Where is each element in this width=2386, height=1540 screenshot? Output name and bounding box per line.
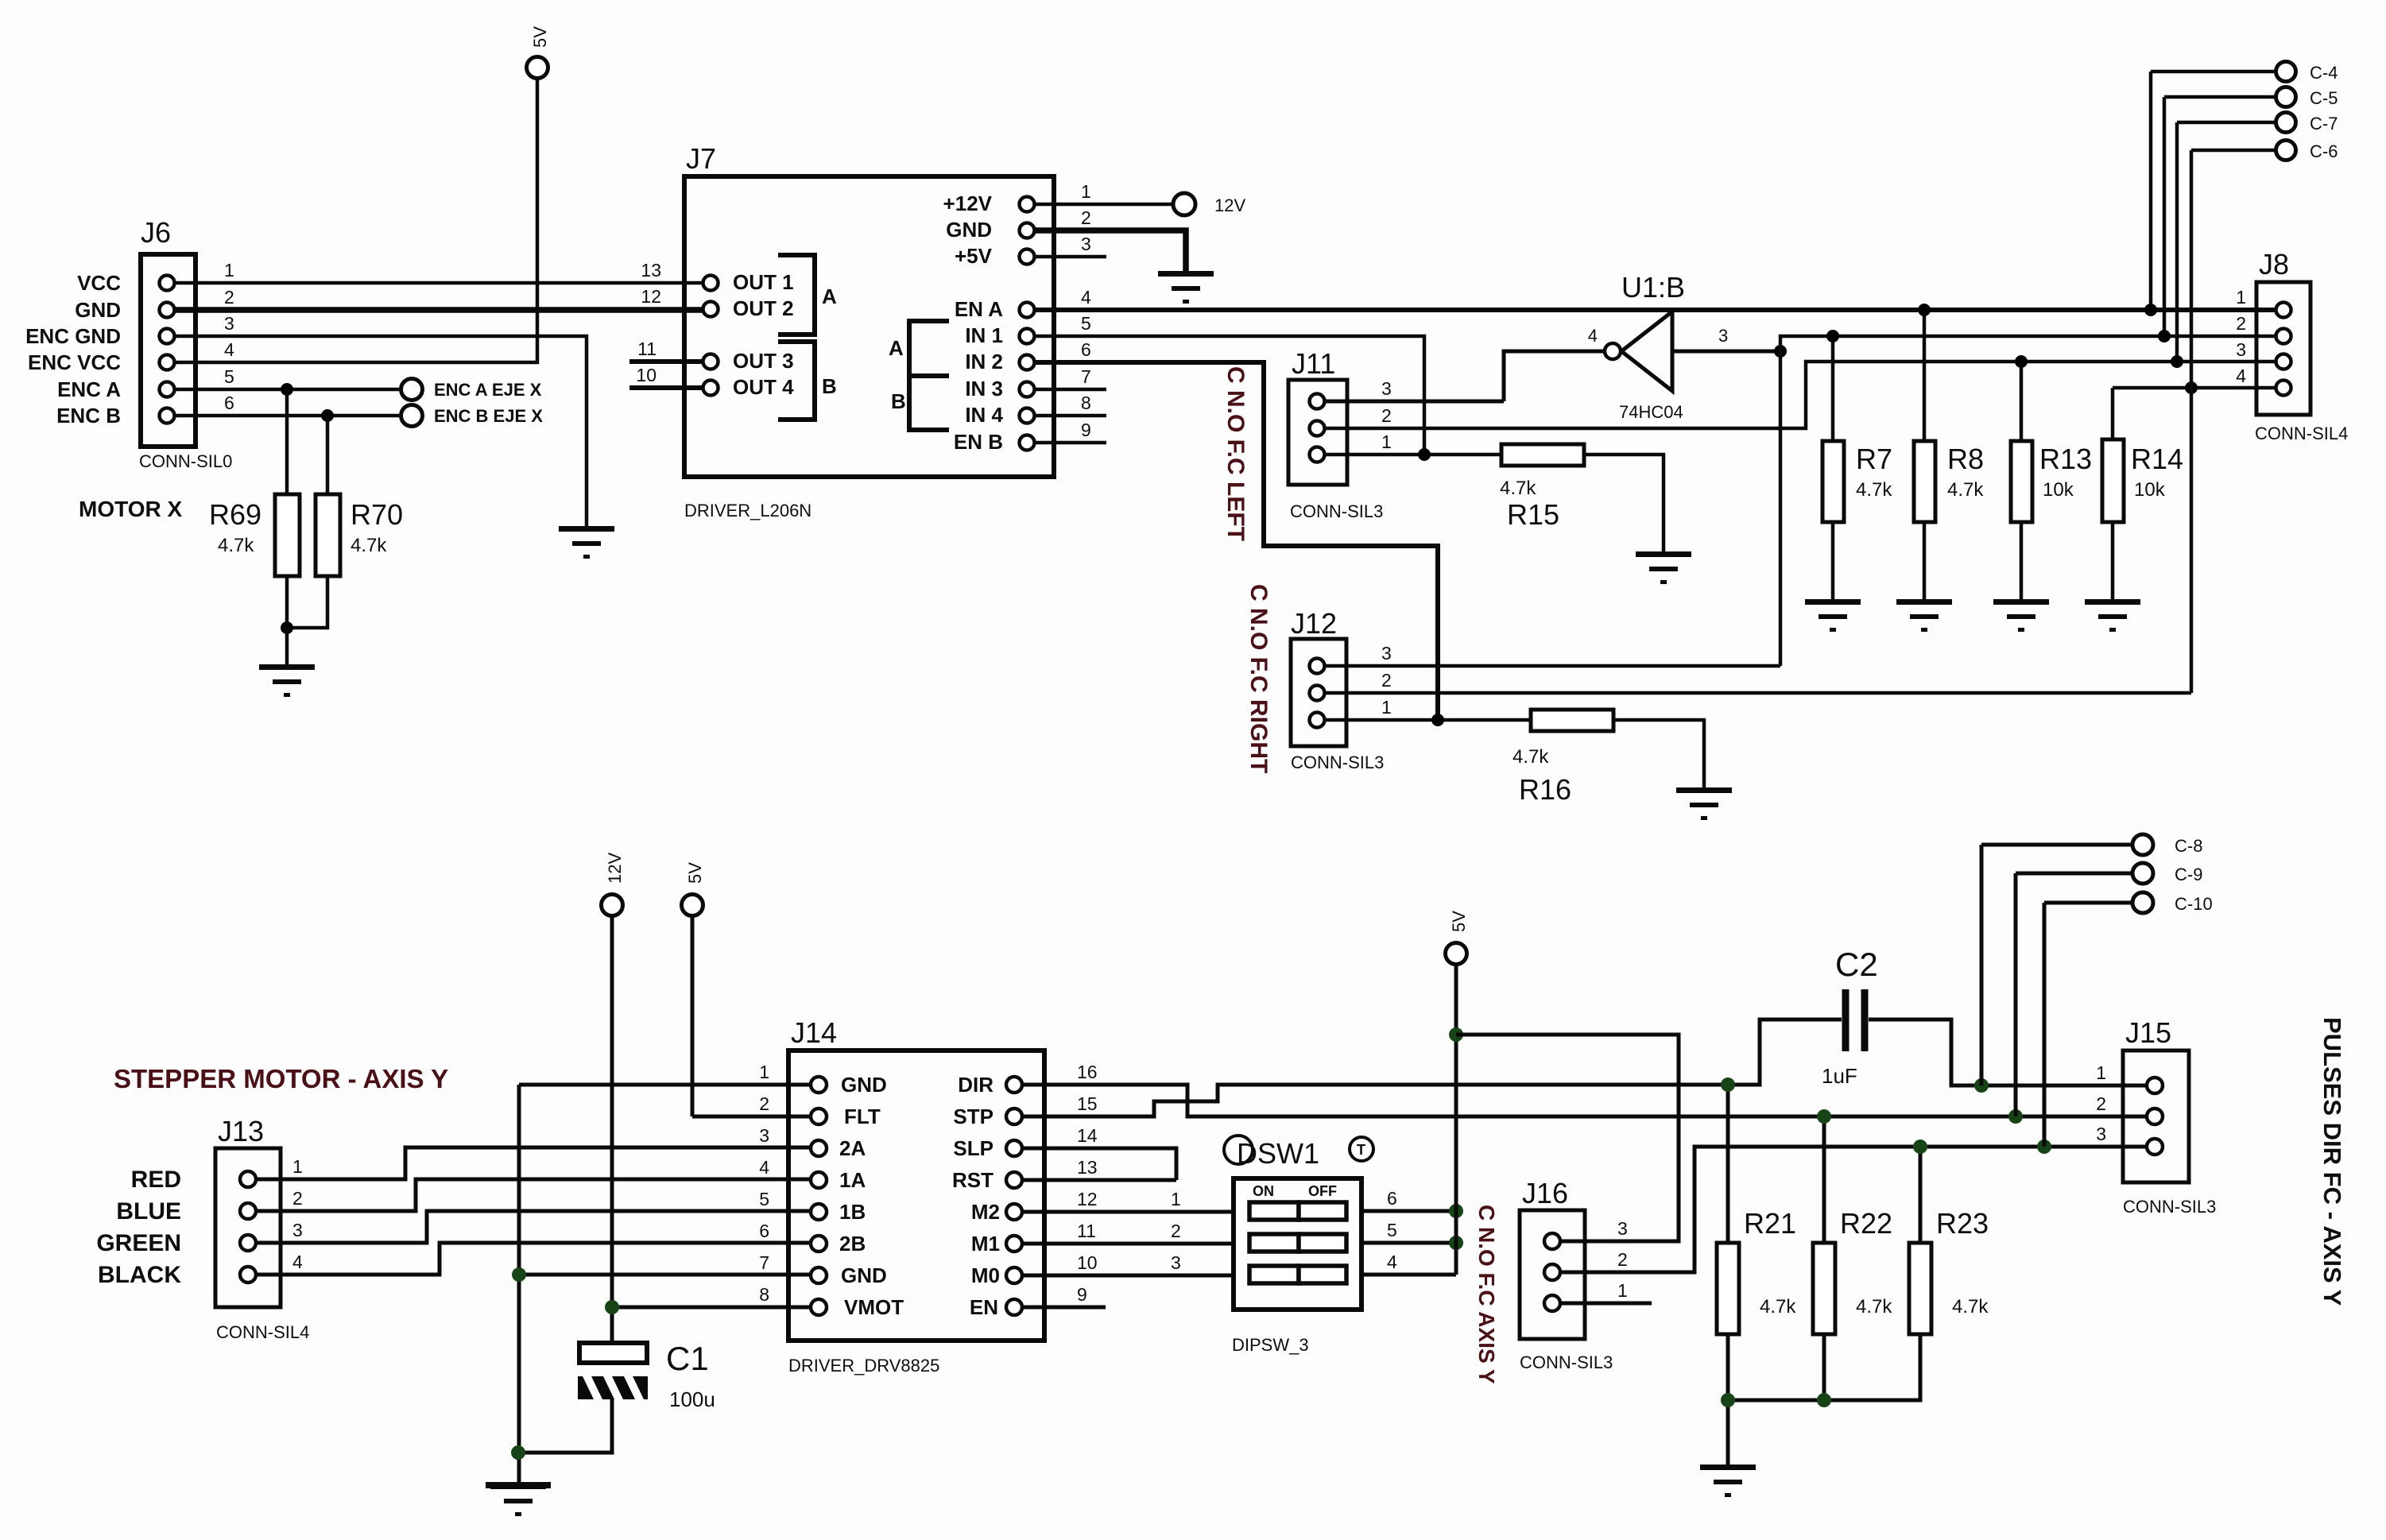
- svg-text:J6: J6: [141, 216, 171, 249]
- svg-text:C-7: C-7: [2310, 114, 2338, 133]
- svg-text:U1:B: U1:B: [1621, 271, 1685, 304]
- svg-text:T: T: [1357, 1142, 1365, 1158]
- svg-text:ENC GND: ENC GND: [25, 324, 121, 348]
- svg-text:8: 8: [759, 1284, 769, 1305]
- svg-text:R7: R7: [1856, 443, 1892, 475]
- svg-text:11: 11: [1077, 1221, 1096, 1241]
- svg-text:J14: J14: [791, 1016, 837, 1049]
- svg-text:9: 9: [1081, 420, 1091, 440]
- svg-text:C N.O F.C LEFT: C N.O F.C LEFT: [1222, 366, 1249, 541]
- svg-text:2: 2: [759, 1093, 769, 1114]
- svg-text:1: 1: [1617, 1280, 1628, 1301]
- svg-text:4: 4: [1588, 326, 1598, 346]
- svg-text:15: 15: [1077, 1093, 1098, 1114]
- svg-text:EN: EN: [970, 1295, 998, 1319]
- svg-text:1: 1: [1171, 1189, 1181, 1209]
- svg-text:R23: R23: [1936, 1207, 1989, 1240]
- svg-text:1: 1: [224, 260, 234, 281]
- svg-text:4: 4: [2236, 366, 2246, 386]
- svg-text:J15: J15: [2125, 1016, 2171, 1049]
- svg-text:GND: GND: [75, 298, 121, 322]
- svg-text:9: 9: [1077, 1284, 1087, 1305]
- svg-text:MOTOR X: MOTOR X: [79, 497, 182, 521]
- svg-text:C N.O F.C RIGHT: C N.O F.C RIGHT: [1245, 584, 1272, 773]
- svg-text:10k: 10k: [2134, 479, 2166, 501]
- svg-text:STP: STP: [953, 1105, 994, 1128]
- svg-text:1A: 1A: [839, 1168, 866, 1192]
- svg-text:IN 1: IN 1: [965, 323, 1003, 347]
- svg-text:R70: R70: [351, 498, 403, 531]
- svg-text:1: 1: [292, 1156, 303, 1177]
- svg-text:1uF: 1uF: [1822, 1064, 1857, 1088]
- svg-text:M2: M2: [971, 1200, 1000, 1224]
- svg-text:3: 3: [1171, 1252, 1181, 1273]
- svg-text:12: 12: [1077, 1189, 1098, 1209]
- svg-text:STEPPER MOTOR - AXIS Y: STEPPER MOTOR - AXIS Y: [114, 1064, 448, 1093]
- svg-text:GREEN: GREEN: [96, 1230, 181, 1256]
- svg-text:PULSES DIR FC - AXIS Y: PULSES DIR FC - AXIS Y: [2318, 1017, 2346, 1306]
- svg-text:4: 4: [224, 339, 234, 360]
- svg-text:R8: R8: [1947, 443, 1984, 475]
- svg-text:2: 2: [1381, 405, 1392, 426]
- svg-text:7: 7: [1081, 366, 1091, 387]
- svg-text:3: 3: [292, 1220, 303, 1240]
- svg-text:R16: R16: [1519, 773, 1571, 806]
- svg-text:R14: R14: [2131, 443, 2183, 475]
- svg-text:J7: J7: [686, 142, 716, 175]
- svg-text:BLUE: BLUE: [116, 1198, 181, 1225]
- svg-text:M1: M1: [971, 1232, 1000, 1256]
- svg-text:5: 5: [1081, 313, 1091, 334]
- svg-text:EN B: EN B: [954, 430, 1003, 454]
- svg-text:5V: 5V: [1449, 911, 1469, 932]
- svg-text:C2: C2: [1835, 946, 1878, 983]
- svg-text:R21: R21: [1744, 1207, 1796, 1240]
- svg-text:C-9: C-9: [2175, 865, 2202, 884]
- svg-text:GND: GND: [946, 218, 992, 242]
- svg-text:R69: R69: [209, 498, 261, 531]
- svg-text:GND: GND: [841, 1073, 887, 1097]
- svg-text:74HC04: 74HC04: [1619, 402, 1683, 422]
- svg-text:1: 1: [2236, 287, 2246, 308]
- svg-text:3: 3: [1381, 378, 1392, 399]
- svg-text:10: 10: [1077, 1252, 1098, 1273]
- svg-text:C-8: C-8: [2175, 836, 2202, 856]
- svg-text:RST: RST: [952, 1168, 994, 1192]
- svg-text:IN 3: IN 3: [965, 377, 1003, 400]
- svg-text:C1: C1: [666, 1340, 709, 1377]
- svg-text:+12V: +12V: [943, 192, 993, 215]
- svg-text:5: 5: [224, 366, 234, 387]
- svg-text:VCC: VCC: [77, 271, 121, 295]
- svg-text:5: 5: [1387, 1220, 1397, 1240]
- svg-text:OFF: OFF: [1308, 1183, 1337, 1199]
- svg-text:OUT 4: OUT 4: [733, 375, 794, 399]
- svg-text:ENC VCC: ENC VCC: [28, 350, 121, 374]
- svg-text:10: 10: [636, 365, 657, 385]
- svg-text:4.7k: 4.7k: [1947, 479, 1984, 501]
- svg-text:2: 2: [224, 287, 234, 308]
- svg-text:ENC A EJE X: ENC A EJE X: [434, 380, 542, 400]
- svg-text:2: 2: [1617, 1249, 1628, 1270]
- svg-text:1: 1: [2096, 1062, 2106, 1083]
- svg-text:DRIVER_L206N: DRIVER_L206N: [684, 501, 811, 520]
- svg-text:1B: 1B: [839, 1200, 866, 1224]
- svg-text:4.7k: 4.7k: [1500, 478, 1536, 499]
- svg-text:3: 3: [1381, 643, 1392, 664]
- svg-text:IN 2: IN 2: [965, 350, 1003, 373]
- svg-text:CONN-SIL4: CONN-SIL4: [2255, 424, 2348, 443]
- svg-text:CONN-SIL3: CONN-SIL3: [1291, 753, 1384, 772]
- svg-text:12V: 12V: [1214, 195, 1245, 215]
- svg-text:6: 6: [1081, 339, 1091, 360]
- svg-text:2: 2: [1381, 670, 1392, 691]
- svg-text:2: 2: [1081, 207, 1091, 228]
- svg-text:14: 14: [1077, 1125, 1098, 1146]
- svg-text:100u: 100u: [669, 1387, 715, 1411]
- svg-text:C-10: C-10: [2175, 894, 2213, 914]
- svg-text:R22: R22: [1840, 1207, 1892, 1240]
- svg-text:VMOT: VMOT: [844, 1295, 904, 1319]
- svg-text:3: 3: [224, 313, 234, 334]
- svg-text:4.7k: 4.7k: [1760, 1296, 1796, 1318]
- svg-text:J16: J16: [1522, 1177, 1568, 1209]
- svg-text:CONN-SIL3: CONN-SIL3: [1520, 1352, 1613, 1372]
- svg-text:4: 4: [1387, 1252, 1397, 1272]
- svg-text:4.7k: 4.7k: [218, 535, 254, 556]
- svg-text:BLACK: BLACK: [98, 1262, 181, 1288]
- svg-text:ENC A: ENC A: [57, 377, 121, 401]
- svg-text:2: 2: [292, 1188, 303, 1209]
- svg-text:C-6: C-6: [2310, 141, 2338, 161]
- svg-text:C-5: C-5: [2310, 88, 2338, 108]
- svg-text:10k: 10k: [2043, 479, 2074, 501]
- svg-text:DIPSW_3: DIPSW_3: [1232, 1335, 1309, 1355]
- svg-text:4.7k: 4.7k: [1513, 746, 1549, 768]
- svg-text:C N.O F.C AXIS Y: C N.O F.C AXIS Y: [1474, 1205, 1499, 1384]
- svg-text:12V: 12V: [605, 853, 625, 884]
- svg-text:J8: J8: [2259, 248, 2289, 281]
- svg-text:2: 2: [2096, 1093, 2106, 1114]
- svg-text:5V: 5V: [685, 862, 705, 884]
- svg-text:4: 4: [292, 1252, 303, 1272]
- svg-text:2: 2: [2236, 313, 2246, 334]
- svg-text:M0: M0: [971, 1263, 1000, 1287]
- svg-text:4.7k: 4.7k: [1952, 1296, 1989, 1318]
- svg-text:1: 1: [1381, 697, 1392, 718]
- svg-text:J12: J12: [1291, 607, 1337, 640]
- svg-text:1: 1: [759, 1062, 769, 1082]
- svg-text:13: 13: [1077, 1157, 1098, 1178]
- svg-text:FLT: FLT: [844, 1105, 881, 1128]
- svg-text:4: 4: [1081, 287, 1091, 308]
- svg-text:2: 2: [1171, 1221, 1181, 1241]
- svg-text:CONN-SIL3: CONN-SIL3: [2123, 1197, 2216, 1217]
- svg-text:R13: R13: [2039, 443, 2092, 475]
- svg-text:16: 16: [1077, 1062, 1098, 1082]
- svg-text:6: 6: [759, 1221, 769, 1241]
- svg-text:CONN-SIL3: CONN-SIL3: [1290, 501, 1383, 521]
- svg-text:SLP: SLP: [953, 1136, 994, 1160]
- svg-text:3: 3: [759, 1125, 769, 1146]
- svg-text:C-4: C-4: [2310, 63, 2338, 83]
- svg-text:4: 4: [759, 1157, 769, 1178]
- svg-text:ON: ON: [1253, 1183, 1274, 1199]
- svg-text:8: 8: [1081, 393, 1091, 413]
- svg-text:12: 12: [641, 286, 661, 307]
- svg-text:2A: 2A: [839, 1136, 866, 1160]
- svg-text:1: 1: [1081, 181, 1091, 202]
- svg-text:J13: J13: [218, 1115, 264, 1147]
- svg-text:B: B: [891, 389, 906, 413]
- svg-text:3: 3: [2236, 339, 2246, 360]
- svg-text:OUT 1: OUT 1: [733, 270, 794, 294]
- svg-text:RED: RED: [131, 1167, 181, 1193]
- svg-text:6: 6: [1387, 1188, 1397, 1209]
- svg-text:5: 5: [759, 1189, 769, 1209]
- svg-text:4.7k: 4.7k: [1856, 479, 1892, 501]
- svg-text:3: 3: [1617, 1218, 1628, 1239]
- svg-text:4.7k: 4.7k: [1856, 1296, 1892, 1318]
- svg-text:3: 3: [1718, 326, 1728, 346]
- svg-text:IN 4: IN 4: [965, 403, 1003, 427]
- svg-text:3: 3: [1081, 234, 1091, 254]
- svg-text:OUT 3: OUT 3: [733, 349, 794, 373]
- svg-text:R15: R15: [1507, 498, 1559, 531]
- svg-text:GND: GND: [841, 1263, 887, 1287]
- svg-text:EN A: EN A: [955, 297, 1003, 321]
- svg-text:1: 1: [1381, 431, 1392, 452]
- svg-text:DRIVER_DRV8825: DRIVER_DRV8825: [788, 1356, 939, 1376]
- svg-text:B: B: [822, 374, 837, 398]
- svg-text:A: A: [889, 336, 904, 360]
- svg-text:CONN-SIL4: CONN-SIL4: [216, 1322, 309, 1342]
- svg-text:+5V: +5V: [955, 244, 993, 268]
- svg-text:4.7k: 4.7k: [351, 535, 387, 556]
- svg-text:6: 6: [224, 393, 234, 413]
- svg-text:ENC B EJE X: ENC B EJE X: [434, 406, 543, 426]
- svg-text:7: 7: [759, 1252, 769, 1273]
- svg-text:DIR: DIR: [958, 1073, 994, 1097]
- svg-text:11: 11: [637, 339, 657, 359]
- svg-text:13: 13: [641, 260, 661, 281]
- svg-text:3: 3: [2096, 1124, 2106, 1144]
- svg-text:J11: J11: [1292, 347, 1335, 380]
- svg-text:CONN-SIL0: CONN-SIL0: [139, 451, 232, 471]
- svg-text:OUT 2: OUT 2: [733, 296, 794, 320]
- svg-text:5V: 5V: [530, 26, 550, 48]
- svg-text:A: A: [822, 284, 837, 308]
- svg-text:2B: 2B: [839, 1232, 866, 1256]
- svg-text:ENC B: ENC B: [56, 404, 121, 428]
